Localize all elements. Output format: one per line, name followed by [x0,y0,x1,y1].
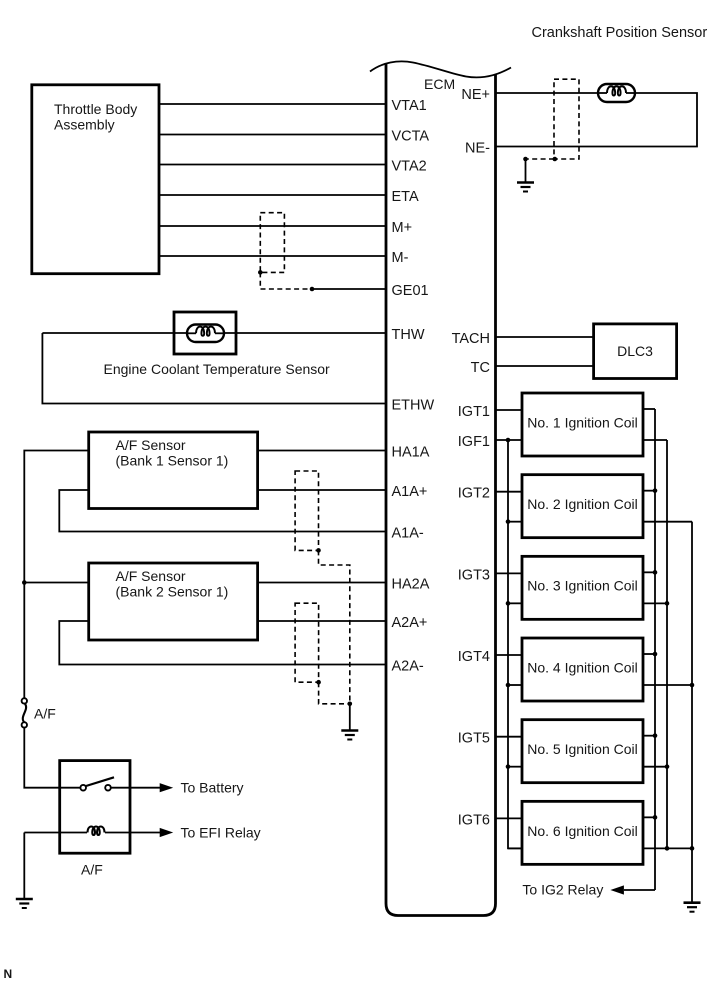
shield S3 around A2A+/A2A- (dashed) [295,603,319,682]
ignition coil label 2 [527,496,638,512]
svg-text:No. 1 Ignition Coil: No. 1 Ignition Coil [527,414,638,430]
wire TC [496,365,594,367]
wire IGF feed coil 2 [508,521,522,523]
pin label A1A- [392,526,424,542]
throttle body assembly label [54,101,137,133]
wire bus A (+B) [654,409,656,890]
shield S1 around M+/M- (dashed) [260,213,284,273]
svg-text:No. 4 Ignition Coil: No. 4 Ignition Coil [527,659,638,675]
wire IGF bus [508,440,522,848]
ECT sensor label [104,361,331,377]
svg-text:A1A-: A1A- [392,526,424,542]
wire VTA2 [159,164,386,166]
wire coil6 ground pin [643,847,692,849]
shield S4 around NE+/NE- (dashed) [554,79,579,159]
node NE shield ground junction [523,157,528,162]
A/F sensor bank1 block [89,432,258,509]
wire fuse to relay switch [24,728,80,788]
DLC3 label [617,343,653,359]
svg-text:To Battery: To Battery [181,780,244,796]
pin label GE01 [392,283,429,299]
svg-text:HA2A: HA2A [392,577,430,593]
wire THW [42,332,386,334]
ignition coil label 1 [527,414,638,430]
pin label VTA1 [392,98,427,114]
wire bus C [691,522,693,903]
pin label IGF1 [458,434,490,450]
svg-text:M-: M- [392,250,409,266]
ECM top break (wavy edge) [370,61,511,77]
wire coil2 ground pin [643,521,692,523]
to battery label [181,780,244,796]
ground bus C [684,903,701,912]
fuse A/F label [34,706,56,722]
node bus B junction coil3 [665,601,670,606]
wire coil2 +B [643,490,655,492]
ground relay [16,899,33,908]
wire NE shield to ground [525,159,527,183]
pin label A2A+ [392,615,428,631]
svg-text:No. 6 Ignition Coil: No. 6 Ignition Coil [527,823,638,839]
node IGF bus junction 5 [506,764,511,769]
svg-text:To EFI Relay: To EFI Relay [181,824,261,840]
svg-text:A2A+: A2A+ [392,615,428,631]
node bus B junction coil5 [665,764,670,769]
wire coil5 +B [643,735,655,737]
wire IGF feed coil 4 [508,684,522,686]
pin label HA1A [392,445,430,461]
DLC3 block [594,324,677,379]
wire IGT4 [496,654,523,656]
wire ETA [159,194,386,196]
wire coil4 +B [643,653,655,655]
svg-text:A/F Sensor(Bank 1 Sensor 1): A/F Sensor(Bank 1 Sensor 1) [116,437,229,469]
pin label VTA2 [392,159,427,175]
A/F sensor bank2 block [89,563,258,640]
pin label IGT5 [458,731,490,747]
wire coil to EFI relay [105,832,160,834]
wire bus B [666,440,668,848]
svg-text:No. 2 Ignition Coil: No. 2 Ignition Coil [527,496,638,512]
wire coil3 +B [643,571,655,573]
wire IGT3 [496,572,523,574]
wire IGF1 [496,439,523,441]
ECT sensor B1 box [174,312,236,354]
shield S2 drain (dashed) [319,550,350,703]
svg-text:ECM: ECM [424,76,455,92]
node IGF bus junction 2 [506,519,511,524]
pin label NE+ [461,87,490,103]
ECT sensor B1 element [187,325,224,343]
node bus C junction coil6 [690,846,695,851]
shield S2 around A1A+/A1A- (dashed) [295,471,318,550]
svg-text:HA1A: HA1A [392,445,430,461]
wire ETHW return [42,333,386,404]
ECM body U1 [386,64,496,916]
svg-text:VTA2: VTA2 [392,159,427,175]
svg-text:VTA1: VTA1 [392,98,427,114]
svg-text:IGT3: IGT3 [458,567,490,583]
node bus B end junction [665,846,670,851]
pin label IGT4 [458,649,490,665]
svg-text:IGT4: IGT4 [458,649,490,665]
ignition coil label 4 [527,659,638,675]
wire coil1 +B [643,408,655,410]
svg-text:Throttle BodyAssembly: Throttle BodyAssembly [54,101,137,133]
pin label VCTA [392,129,430,145]
wire coil5 ground pin [643,766,667,768]
wire coil6 +B [643,816,655,818]
ground shields [341,731,358,740]
node IGF bus junction 3 [506,601,511,606]
wire VTA1 [159,103,386,105]
node GE01 drain junction [310,287,315,292]
arrow to battery [160,783,174,792]
ignition coil block 1 [522,393,643,456]
ECM label [424,76,455,92]
wire A2A+ [258,620,386,622]
shield S4 drain (dashed) [526,158,555,160]
wire M- [159,255,386,257]
svg-text:DLC3: DLC3 [617,343,653,359]
wire to IG2 relay [624,889,655,891]
wire relay coil to ground [23,833,25,900]
wire HA2A [258,582,386,584]
pin label THW [392,327,425,343]
svg-text:M+: M+ [392,220,413,236]
wire VCTA [159,134,386,136]
ignition coil label 3 [527,578,638,594]
ignition coil block 4 [522,638,643,701]
relay switch contact [80,777,114,790]
wire TACH [496,336,594,338]
to EFI relay label [181,824,261,840]
svg-text:GE01: GE01 [392,283,429,299]
node IGF bus junction 4 [506,683,511,688]
ignition coil block 6 [522,801,643,864]
svg-text:N: N [4,967,13,981]
wire coil4 ground pin [643,684,692,686]
fuse A/F [22,698,27,727]
wire IGT5 [496,736,523,738]
svg-text:ETHW: ETHW [392,398,435,414]
wire NE loop [496,93,698,147]
ignition coil block 5 [522,720,643,783]
arrow to EFI relay [160,828,174,837]
node shield drain junction [348,702,353,707]
throttle body assembly block [32,85,159,274]
svg-text:IGT2: IGT2 [458,486,490,502]
shield S1 drain (dashed) [260,272,312,289]
svg-text:THW: THW [392,327,425,343]
ground NE shield [517,183,534,192]
pin label IGT1 [458,404,490,420]
svg-text:NE-: NE- [465,141,490,157]
node left bus HA2A junction [22,580,27,585]
svg-text:VCTA: VCTA [392,129,430,145]
wire relay coil feed [24,832,87,834]
node S4 drain corner [553,157,558,162]
svg-text:IGT1: IGT1 [458,404,490,420]
wire IGF feed coil 5 [508,766,522,768]
ignition coil label 5 [527,741,638,757]
svg-text:TACH: TACH [452,331,490,347]
wire NE+ [496,92,599,94]
pin label A1A+ [392,484,428,500]
svg-text:A2A-: A2A- [392,659,424,675]
svg-text:A/F: A/F [34,706,56,722]
pin label IGT3 [458,567,490,583]
svg-text:Crankshaft Position Sensor: Crankshaft Position Sensor [532,25,708,41]
svg-text:Engine Coolant Temperature Sen: Engine Coolant Temperature Sensor [104,361,331,377]
pin label TACH [452,331,490,347]
wire left bus to fuse [23,583,25,699]
svg-text:IGT5: IGT5 [458,731,490,747]
wire HA1A [258,450,386,452]
ignition coil block 3 [522,556,643,619]
wire IGT6 [496,817,523,819]
crank sensor pickup coil [598,84,635,102]
relay A/F label [81,862,103,878]
node bus A junction 4 [653,652,658,657]
pin label TC [471,360,490,376]
pin label IGT2 [458,486,490,502]
pin label M+ [392,220,413,236]
pin label A2A- [392,659,424,675]
svg-text:ETA: ETA [392,189,419,205]
ignition coil block 2 [522,475,643,538]
svg-text:NE+: NE+ [461,87,490,103]
wire shield drain to ground [349,704,351,731]
node IGF bus junction 1 [506,438,511,443]
to IG2 relay label [522,882,603,898]
node S2 drain corner [316,548,321,553]
node bus C junction coil4 [690,683,695,688]
wire coil1 ground pin [643,439,667,441]
node S3 drain corner [316,680,321,685]
wire M+ [159,225,386,227]
svg-text:IGT6: IGT6 [458,812,490,828]
wire A2A- loop [59,621,386,665]
wire HA1A to left bus [24,451,88,583]
pin label ETA [392,189,419,205]
wire A1A- loop [59,490,386,532]
wire GE01 [312,288,386,290]
pin label ETHW [392,398,435,414]
wire switch to battery [111,787,160,789]
ignition coil label 6 [527,823,638,839]
pin label IGT6 [458,812,490,828]
svg-text:A/F Sensor(Bank 2 Sensor 1): A/F Sensor(Bank 2 Sensor 1) [116,568,229,600]
wire coil3 ground pin [643,602,667,604]
svg-text:IGF1: IGF1 [458,434,490,450]
pin label HA2A [392,577,430,593]
node S1 drain corner [258,270,263,275]
svg-text:A/F: A/F [81,862,103,878]
wire IGF feed coil 3 [508,602,522,604]
node bus A junction 5 [653,733,658,738]
svg-text:TC: TC [471,360,490,376]
svg-text:To IG2 Relay: To IG2 Relay [522,882,603,898]
node bus A junction 6 [653,815,658,820]
crankshaft position sensor title [532,25,708,41]
wire A1A+ [258,489,386,491]
shield S3 drain (dashed) [319,682,350,704]
node bus A junction 3 [653,570,658,575]
wire IGT1 [496,409,523,411]
relay coil [88,826,105,835]
svg-text:A1A+: A1A+ [392,484,428,500]
svg-text:No. 3 Ignition Coil: No. 3 Ignition Coil [527,578,638,594]
wire IGT2 [496,491,523,493]
wire HA2A to left bus [24,582,88,584]
wire IGF feed coil 6 [508,847,522,849]
pin label M- [392,250,409,266]
node bus A junction 2 [653,488,658,493]
pin label NE- [465,141,490,157]
A/F sensor bank2 label [116,568,229,600]
A/F sensor bank1 label [116,437,229,469]
relay A/F block [60,761,130,854]
arrow to IG2 relay [610,885,624,894]
page marker N [4,967,13,981]
svg-text:No. 5 Ignition Coil: No. 5 Ignition Coil [527,741,638,757]
